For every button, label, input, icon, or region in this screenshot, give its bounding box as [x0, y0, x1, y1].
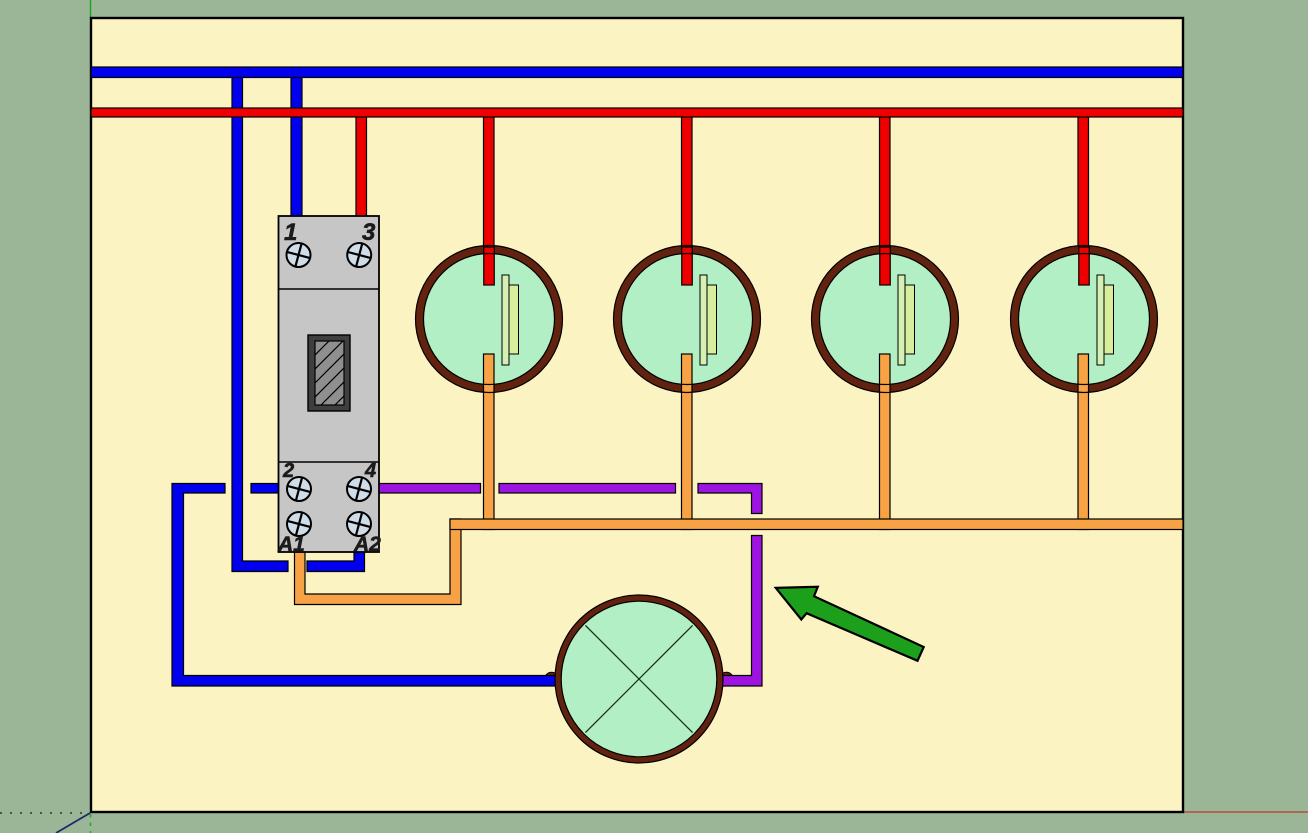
socket S1 edge outlines: [416, 246, 563, 393]
socket S2: [614, 246, 761, 393]
switched-line bus (orange horizontal): [450, 519, 1183, 530]
wire: red drop to socket S3: [880, 117, 891, 285]
svg-text:4: 4: [364, 460, 376, 482]
wire: red drop to contactor pin 3: [356, 117, 367, 216]
svg-text:3: 3: [362, 219, 376, 246]
wire: blue coil return to A2, right segment: [307, 552, 365, 572]
terminal screw 4: [344, 474, 373, 503]
live bus L (red): [91, 108, 1183, 117]
annotation arrow: [776, 587, 924, 661]
wire: red drop to socket S4: [1078, 117, 1089, 285]
work panel: [91, 18, 1183, 812]
lamp E1: [555, 595, 723, 763]
socket S3 edge outlines: [812, 246, 959, 393]
terminal screw A2: [344, 509, 373, 538]
contactor switch window: [251, 335, 427, 411]
red axis (right of panel): [1184, 811, 1308, 813]
wire: blue pin-2 loop down to lamp: [172, 484, 556, 687]
socket S1: [416, 246, 563, 393]
wire: red drop to socket S2: [682, 117, 693, 285]
lamp E1 connection nubs: [545, 672, 734, 686]
wire: purple segment 3 with corner: [698, 484, 762, 514]
contactor K1 body: [279, 216, 380, 552]
wire: orange from contactor A1 down-right-up to bus: [295, 519, 462, 605]
wire: orange drop socket S3 to bus: [880, 354, 891, 530]
svg-text:2: 2: [282, 460, 294, 482]
wire: blue drop from N bus to coil loop (left vertical): [232, 77, 288, 572]
wire: purple from contactor pin 4, segment 1: [379, 484, 481, 494]
green axis dashed (down from origin): [90, 814, 92, 833]
red axis dotted (left of origin): [0, 812, 88, 814]
socket S4 edge outlines: [1011, 246, 1158, 393]
terminal screw 3: [345, 240, 374, 269]
wire: orange drop socket S4 to bus: [1078, 354, 1089, 530]
wire: red drop to socket S1: [484, 117, 495, 285]
terminal screw 2: [284, 474, 313, 503]
socket S3: [812, 246, 959, 393]
svg-text:1: 1: [284, 219, 297, 246]
neutral bus N (blue): [91, 67, 1183, 78]
wire: orange drop socket S2 to bus: [682, 354, 693, 530]
blue axis (toward viewer, lower-left diagonal): [56, 813, 90, 833]
wire: purple vertical to lamp corner: [722, 536, 762, 687]
terminal screw 1: [284, 240, 313, 269]
wire: purple segment 2: [499, 484, 676, 494]
socket S2 edge outlines: [614, 246, 761, 393]
svg-text:A2: A2: [353, 533, 381, 556]
terminal screw A1: [284, 509, 313, 538]
svg-text:A1: A1: [277, 533, 305, 556]
wire: blue from contactor pin 2, segment at box: [251, 484, 279, 494]
socket S4: [1011, 246, 1158, 393]
green axis (up, above panel): [90, 0, 92, 18]
wire: blue drop from N bus to contactor pin 1: [291, 77, 302, 216]
wire: orange drop socket S1 to bus: [484, 354, 495, 530]
